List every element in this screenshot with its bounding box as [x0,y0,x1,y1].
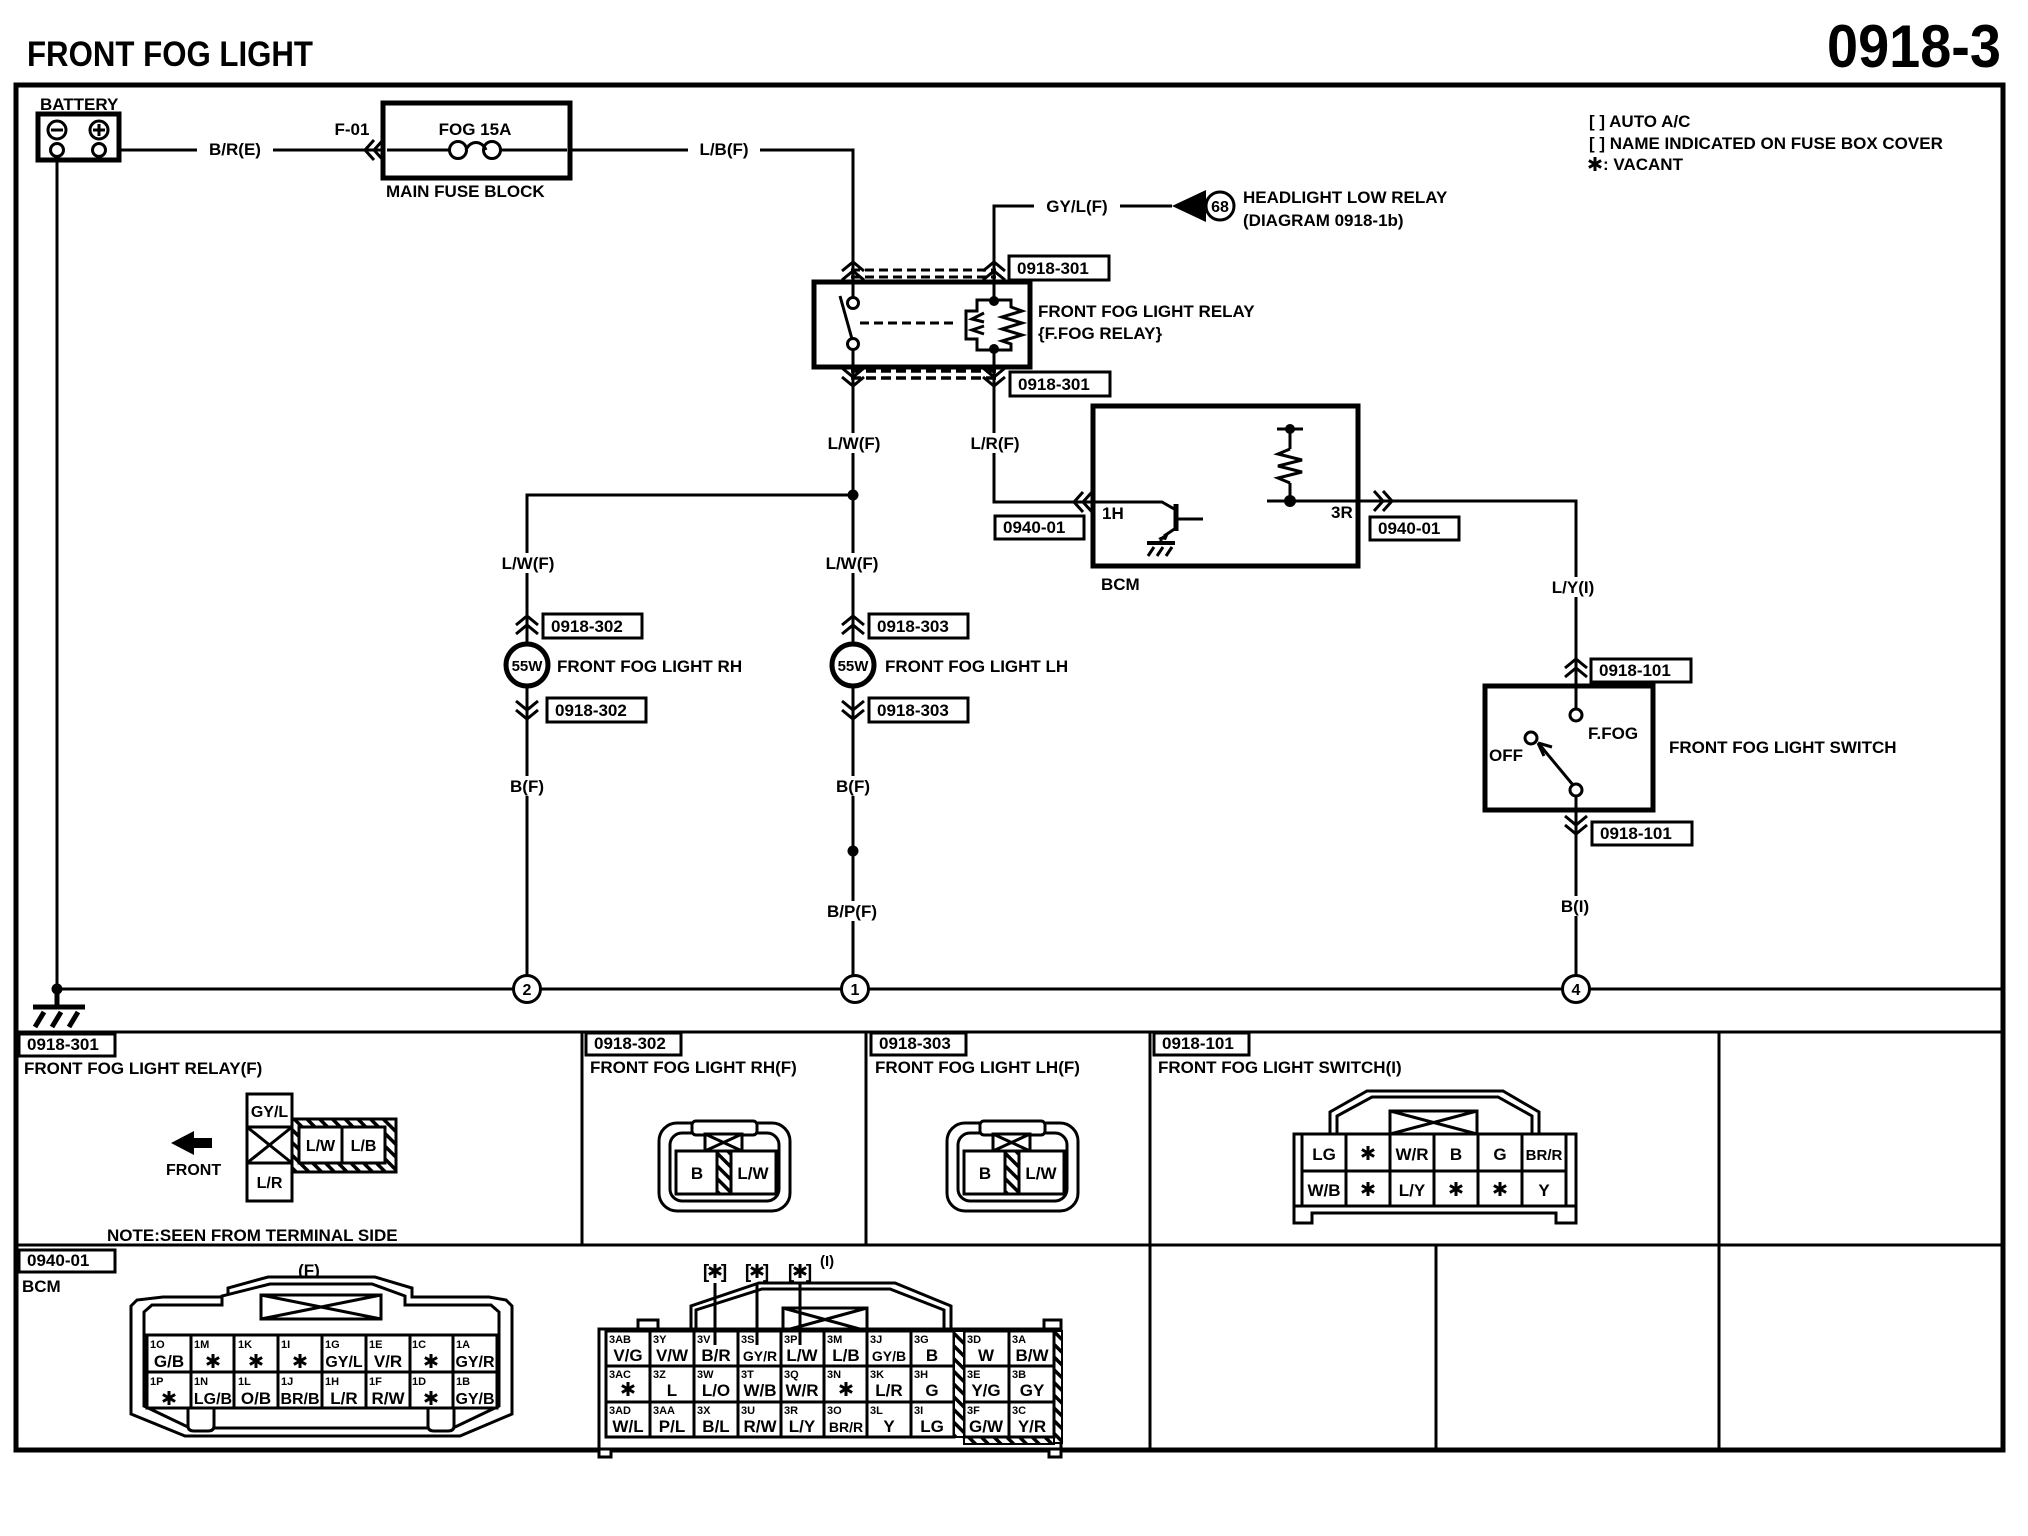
svg-text:3W: 3W [697,1369,714,1381]
svg-text:0918-303: 0918-303 [877,701,949,720]
BCM connector (F) housing [131,1277,512,1436]
BCM connector (I) housing [599,1283,1062,1457]
table header 0918-302 [586,1033,681,1055]
fuse FOG 15A [450,142,501,159]
FRONT direction arrow [171,1131,212,1155]
svg-text:: VACANT: : VACANT [1603,155,1684,174]
svg-text:3N: 3N [827,1369,841,1381]
svg-text:B: B [691,1164,703,1183]
svg-text:4: 4 [1572,982,1581,999]
svg-text:R/W: R/W [743,1417,777,1436]
svg-text:L/O: L/O [702,1381,730,1400]
svg-text:Y: Y [1538,1181,1550,1200]
svg-text:1J: 1J [281,1376,293,1388]
connector 0918-301 dashed pass-through above relay [851,270,996,277]
wire label L/W(F) RH feed [489,553,567,573]
svg-text:HEADLIGHT LOW RELAY: HEADLIGHT LOW RELAY [1243,188,1448,207]
svg-text:3R: 3R [784,1405,798,1417]
resistor pull-up in BCM [1277,424,1303,507]
BCM connector (I) pin 3Q W/R [784,1369,819,1400]
svg-text:FRONT FOG LIGHT SWITCH(I): FRONT FOG LIGHT SWITCH(I) [1158,1058,1402,1077]
switch contacts [1525,686,1582,810]
svg-text:BCM: BCM [1101,575,1140,594]
svg-text:1A: 1A [456,1339,470,1351]
ground bus wire [57,988,2003,991]
svg-text:FRONT FOG LIGHT LH: FRONT FOG LIGHT LH [885,657,1068,676]
svg-text:3Y: 3Y [653,1334,667,1346]
BCM connector (I) vacant bracket labels [703,1262,727,1283]
BCM connector (F) pin 1N LG/B [194,1376,232,1408]
BCM connector (I) pin 3M L/B [827,1334,860,1365]
svg-text:3R: 3R [1331,503,1353,522]
svg-text:BR/B: BR/B [280,1391,319,1408]
svg-text:FRONT FOG LIGHT SWITCH: FRONT FOG LIGHT SWITCH [1669,738,1897,757]
svg-text:BATTERY: BATTERY [40,95,119,114]
svg-text:3B: 3B [1012,1369,1026,1381]
svg-text:GY/R: GY/R [455,1354,495,1371]
connector chevron out of BCM pin 3R [1374,491,1392,511]
svg-text:1L: 1L [238,1376,251,1388]
table header 0918-101 [1154,1033,1249,1055]
svg-text:MAIN FUSE BLOCK: MAIN FUSE BLOCK [386,182,545,201]
ground symbol chassis earth [33,989,85,1027]
svg-text:L/W: L/W [306,1138,336,1155]
svg-text:0918-3: 0918-3 [1827,13,2001,80]
svg-text:L/Y: L/Y [789,1417,816,1436]
svg-text:1H: 1H [1102,504,1124,523]
svg-text:FRONT FOG LIGHT: FRONT FOG LIGHT [27,35,313,74]
svg-text:68: 68 [1211,199,1229,216]
svg-text:1C: 1C [412,1339,426,1351]
svg-text:1D: 1D [412,1376,426,1388]
wire label B(F) LH [828,776,878,796]
svg-text:W/B: W/B [743,1381,776,1400]
svg-text:FRONT FOG LIGHT LH(F): FRONT FOG LIGHT LH(F) [875,1058,1080,1077]
svg-text:3T: 3T [741,1369,754,1381]
BCM connector (F) pin 1I * [281,1339,306,1368]
wire label B/R(E) [197,139,273,159]
switch connector pin 10 * [1450,1182,1462,1196]
svg-text:L/B: L/B [832,1346,859,1365]
svg-text:1G: 1G [325,1339,340,1351]
connector table grid lines [16,1032,2003,1450]
svg-text:3M: 3M [827,1334,842,1346]
wire GY/L(F) relay coil to headlight low relay arrow [994,206,1172,297]
BCM connector (I) pin 3Z L [653,1369,677,1400]
svg-text:0918-303: 0918-303 [877,617,949,636]
svg-text:1F: 1F [369,1376,382,1388]
svg-text:1K: 1K [238,1339,252,1351]
wire battery negative to ground bus [56,158,59,989]
BCM connector (I) pin 3AD W/L [609,1405,644,1436]
BCM connector (I) pin 3L Y [870,1405,895,1436]
svg-text:B(F): B(F) [510,777,544,796]
svg-text:1E: 1E [369,1339,382,1351]
lamp front fog light LH 55W [832,644,874,686]
svg-text:3AC: 3AC [609,1369,631,1381]
node ground point 2 [514,976,541,1003]
svg-text:3U: 3U [741,1405,755,1417]
BCM connector (F) pin 1K * [238,1339,262,1368]
svg-text:LG/B: LG/B [194,1391,232,1408]
svg-text:G/W: G/W [969,1417,1004,1436]
svg-text:3Z: 3Z [653,1369,666,1381]
table header 0918-303 [871,1033,966,1055]
BCM connector (I) pin 3AA P/L [653,1405,685,1436]
BCM connector (F) pin 1B GY/B [455,1376,494,1408]
connector label 0918-303 bottom [869,698,968,722]
legend note vacant [1589,155,1684,174]
BCM connector (I) pin 3I LG [914,1405,944,1436]
svg-text:(DIAGRAM 0918-1b): (DIAGRAM 0918-1b) [1243,211,1404,230]
BCM connector (I) pin 3H G [914,1369,939,1400]
svg-text:L/W: L/W [1025,1164,1057,1183]
svg-text:W/R: W/R [785,1381,818,1400]
table header 0918-301 [19,1034,115,1056]
relay connector terminal view [247,1094,396,1201]
svg-text:Y/R: Y/R [1018,1417,1046,1436]
wire B(F)/B/P(F) fog light LH to ground point 1 [852,686,855,976]
svg-text:GY/B: GY/B [872,1348,906,1364]
BCM connector (I) pin 3AB V/G [609,1334,643,1365]
svg-text:L/W(F): L/W(F) [828,434,881,453]
wire label B(I) [1552,896,1598,916]
svg-text:3D: 3D [967,1334,981,1346]
BCM connector (I) pin 3K L/R [870,1369,903,1400]
svg-text:FRONT FOG LIGHT RELAY: FRONT FOG LIGHT RELAY [1038,302,1255,321]
svg-text:L/R: L/R [330,1389,357,1408]
svg-text:W: W [978,1346,995,1365]
svg-text:V/R: V/R [374,1352,402,1371]
svg-text:GY/B: GY/B [455,1391,494,1408]
svg-text:2: 2 [523,982,532,999]
relay coil [966,282,1022,367]
svg-text:FRONT FOG LIGHT RH(F): FRONT FOG LIGHT RH(F) [590,1058,797,1077]
svg-text:B(I): B(I) [1561,897,1589,916]
BCM connector (F) pin 1E V/R [369,1339,402,1371]
svg-text:3H: 3H [914,1369,928,1381]
svg-text:[ ] NAME INDICATED ON FUSE BOX: [ ] NAME INDICATED ON FUSE BOX COVER [1589,134,1943,153]
svg-text:0918-302: 0918-302 [594,1034,666,1053]
svg-text:0918-302: 0918-302 [551,617,623,636]
BCM connector (I) pin 3A B/W [1012,1334,1049,1365]
svg-text:0918-301: 0918-301 [1017,259,1089,278]
BCM connector (I) pin 3J GY/B [870,1334,906,1364]
svg-text:1M: 1M [194,1339,209,1351]
svg-text:O/B: O/B [241,1389,271,1408]
svg-text:L/W(F): L/W(F) [502,554,555,573]
svg-text:0918-301: 0918-301 [1018,375,1090,394]
svg-text:FRONT: FRONT [166,1162,221,1179]
svg-text:3S: 3S [741,1334,754,1346]
svg-text:3L: 3L [870,1405,883,1417]
svg-text:55W: 55W [512,658,544,675]
svg-text:1H: 1H [325,1376,339,1388]
svg-text:B: B [926,1346,938,1365]
BCM connector (I) pin 3T W/B [741,1369,777,1400]
BCM connector (I) pin 3P L/W [784,1334,819,1365]
wire fuse element lead [387,149,452,152]
svg-text:GY/R: GY/R [743,1348,777,1364]
svg-text:[ ] AUTO A/C: [ ] AUTO A/C [1589,112,1690,131]
svg-text:0918-101: 0918-101 [1162,1034,1234,1053]
wire 3R inside BCM [1267,500,1358,503]
wire label L/B(F) [688,139,760,159]
BCM connector (I) pin 3B GY [1012,1369,1045,1400]
wire label GY/L(F) [1034,196,1120,216]
svg-text:3AB: 3AB [609,1334,631,1346]
BCM connector (I) pin 3X B/L [697,1405,730,1436]
svg-text:L/R: L/R [257,1175,283,1192]
BCM connector (I) pin 3AC * [609,1369,634,1396]
svg-text:1P: 1P [150,1376,163,1388]
svg-text:0940-01: 0940-01 [27,1251,89,1270]
svg-text:L/B: L/B [351,1138,377,1155]
BCM connector (F) pin 1P * [150,1376,175,1405]
svg-text:W/R: W/R [1395,1145,1428,1164]
svg-text:55W: 55W [838,658,870,675]
svg-text:(I): (I) [820,1253,834,1270]
BCM connector (F) pin 1H L/R [325,1376,358,1408]
wire label L/Y(I) [1541,577,1605,597]
svg-text:V/W: V/W [656,1346,689,1365]
svg-text:3G: 3G [914,1334,929,1346]
BCM connector (I) pin 3Y V/W [653,1334,689,1365]
svg-text:NOTE:SEEN FROM TERMINAL SIDE: NOTE:SEEN FROM TERMINAL SIDE [107,1226,398,1245]
BCM connector (I) pin 3U R/W [741,1405,777,1436]
switch connector pin 11 * [1494,1182,1506,1196]
svg-text:FRONT FOG LIGHT RELAY(F): FRONT FOG LIGHT RELAY(F) [24,1059,262,1078]
svg-text:OFF: OFF [1489,746,1523,765]
svg-text:GY/L: GY/L [251,1104,289,1121]
svg-text:B/W: B/W [1015,1346,1049,1365]
svg-text:B(F): B(F) [836,777,870,796]
svg-text:0940-01: 0940-01 [1378,519,1440,538]
svg-text:BCM: BCM [22,1277,61,1296]
svg-text:BR/R: BR/R [829,1419,863,1435]
wire label B/P(F) [815,901,889,921]
svg-text:L/W: L/W [786,1346,818,1365]
wire L/R(F) relay coil to BCM pin 1H [994,367,1093,502]
svg-text:FOG 15A: FOG 15A [439,120,512,139]
svg-text:3X: 3X [697,1405,711,1417]
svg-text:3V: 3V [697,1334,711,1346]
node ground bus junction at battery wire [52,984,63,995]
svg-text:BR/R: BR/R [1526,1147,1563,1164]
front fog light relay box [814,282,1030,367]
svg-text:3K: 3K [870,1369,884,1381]
svg-text:]: ] [806,1262,812,1283]
BCM box [1093,406,1358,566]
relay switch contact [840,282,859,367]
connector label 0918-303 top [869,614,968,638]
connector label 0918-302 bottom [547,698,646,722]
BCM connector (I) pin 3D W [967,1334,995,1365]
connector label 0918-301 bottom [1010,372,1110,396]
connector label 0918-301 top [1009,256,1109,280]
svg-text:F.FOG: F.FOG [1588,724,1638,743]
svg-text:B/L: B/L [702,1417,729,1436]
svg-text:3P: 3P [784,1334,797,1346]
svg-text:GY/L: GY/L [325,1354,363,1371]
node branch junction L/W [848,490,859,501]
svg-text:]: ] [763,1262,769,1283]
wire L/Y(I) BCM pin 3R to fog light switch [1358,501,1576,687]
wire label L/W(F) LH feed [813,553,891,573]
svg-text:0918-303: 0918-303 [879,1034,951,1053]
BCM connector (F) pin 1L O/B [238,1376,271,1408]
connector chevron into BCM pin 1H [1074,492,1092,512]
svg-text:LG: LG [920,1417,944,1436]
lamp front fog light RH 55W [506,644,548,686]
svg-text:3Q: 3Q [784,1369,799,1381]
svg-text:3I: 3I [914,1405,923,1417]
svg-text:L/R: L/R [875,1381,902,1400]
svg-text:V/G: V/G [613,1346,642,1365]
svg-text:B/P(F): B/P(F) [827,902,877,921]
BCM connector (F) pin 1F R/W [369,1376,405,1408]
svg-text:3E: 3E [967,1369,980,1381]
front fog light switch box [1485,686,1653,810]
wire B/R(E) battery to fuse [119,149,383,152]
svg-text:L/W(F): L/W(F) [826,554,879,573]
svg-text:L/B(F): L/B(F) [699,140,748,159]
svg-text:G: G [925,1381,938,1400]
svg-text:F-01: F-01 [335,120,370,139]
BCM connector (F) pin 1G GY/L [325,1339,363,1371]
BCM connector (I) pin 3E Y/G [967,1369,1001,1400]
svg-text:L/R(F): L/R(F) [970,434,1019,453]
node splice on B/P(F) wire [848,846,859,857]
connector label 0918-302 top [543,614,642,638]
BCM connector (I) pin 3F G/W [967,1405,1004,1436]
BCM connector (I) pin 3S GY/R [741,1334,777,1364]
reference arrow to headlight low relay [1172,190,1206,222]
svg-text:3J: 3J [870,1334,882,1346]
svg-text:B: B [979,1164,991,1183]
BCM connector (I) pin 3W L/O [697,1369,730,1400]
svg-text:[: [ [703,1262,710,1283]
switch connector pin 8 * [1362,1182,1374,1196]
svg-text:W/B: W/B [1307,1181,1340,1200]
switch connector pin 2 * [1362,1146,1374,1160]
svg-text:3AD: 3AD [609,1405,631,1417]
svg-text:1I: 1I [281,1339,290,1351]
svg-text:G: G [1493,1145,1506,1164]
svg-text:GY/L(F): GY/L(F) [1046,197,1107,216]
BCM connector (F) pin 1M * [194,1339,219,1368]
svg-text:Y: Y [883,1417,895,1436]
fog light LH connector view [947,1121,1078,1211]
fog light RH connector view [659,1121,790,1211]
connector chevron into main fuse block [365,140,383,160]
svg-text:[: [ [745,1262,752,1283]
table header 0940-01 [19,1250,115,1272]
BCM connector (I) pin 3V B/R [697,1334,731,1365]
BCM connector (F) pin 1A GY/R [455,1339,495,1371]
connector label 0918-101 bottom [1592,822,1692,845]
wire L/W(F) relay to branch junction and fog light LH [852,367,855,645]
svg-text:0940-01: 0940-01 [1003,518,1065,537]
svg-text:LG: LG [1312,1145,1336,1164]
svg-text:B: B [1450,1145,1462,1164]
svg-text:0918-101: 0918-101 [1600,824,1672,843]
svg-text:3AA: 3AA [653,1405,675,1417]
connector label 0940-01 right [1370,517,1459,540]
svg-text:W/L: W/L [612,1417,643,1436]
svg-text:GY: GY [1020,1381,1045,1400]
battery [38,114,119,160]
BCM connector (F) pin 1J BR/B [280,1376,319,1408]
wire label B(F) RH [502,776,552,796]
svg-text:FRONT FOG LIGHT RH: FRONT FOG LIGHT RH [557,657,742,676]
svg-text:3A: 3A [1012,1334,1026,1346]
svg-text:B/R(E): B/R(E) [209,140,261,159]
svg-text:L/Y(I): L/Y(I) [1552,578,1595,597]
svg-text:3C: 3C [1012,1405,1026,1417]
connector label 0918-101 top [1591,659,1691,682]
ground symbol inside BCM [1147,543,1175,556]
svg-text:G/B: G/B [154,1352,184,1371]
svg-text:L/W: L/W [737,1164,769,1183]
wire B(I) switch to ground point 4 [1575,810,1578,976]
wire label L/W(F) relay output [815,433,893,453]
BCM connector (I) pin 3R L/Y [784,1405,816,1436]
wire L/W(F) branch to fog light RH [527,495,853,645]
BCM connector (I) pin 3O BR/R [827,1405,863,1435]
svg-text:1B: 1B [456,1376,470,1388]
svg-text:1O: 1O [150,1339,165,1351]
BCM connector (I) pin 3G B [914,1334,938,1365]
svg-text:3O: 3O [827,1405,842,1417]
fog light switch connector view [1294,1091,1576,1223]
node ground point 1 [842,976,869,1003]
svg-text:0918-302: 0918-302 [555,701,627,720]
svg-text:0918-101: 0918-101 [1599,661,1671,680]
BCM connector (I) pin grid [606,1331,1054,1437]
wire L/B(F) fuse to relay [570,150,853,298]
BCM connector (F) pin 1C * [412,1339,437,1368]
svg-text:3F: 3F [967,1405,980,1417]
BCM connector (I) pin 3N * [827,1369,852,1396]
connector label 0940-01 left [995,516,1084,539]
connector 0918-301 dashed pass-through below relay [851,371,996,378]
svg-text:1: 1 [851,982,860,999]
wire label L/R(F) [957,433,1033,453]
svg-text:B/R: B/R [701,1346,730,1365]
svg-text:L: L [667,1381,677,1400]
svg-text:Y/G: Y/G [971,1381,1000,1400]
relay actuation dashed link [860,322,958,325]
svg-text:[: [ [788,1262,795,1283]
main fuse block box [383,103,570,178]
wire B(F) fog light RH to ground point 2 [526,686,529,976]
transistor Q1 in BCM [1093,502,1203,543]
svg-text:R/W: R/W [371,1389,405,1408]
svg-text:{F.FOG RELAY}: {F.FOG RELAY} [1038,324,1162,343]
svg-text:1N: 1N [194,1376,208,1388]
svg-text:P/L: P/L [659,1417,685,1436]
BCM connector (I) pin 3C Y/R [1012,1405,1046,1436]
node ground point 4 [1563,976,1590,1003]
svg-text:L/Y: L/Y [1399,1181,1426,1200]
BCM connector (F) pin 1O G/B [150,1339,184,1371]
BCM connector (F) pin 1D * [412,1376,437,1405]
svg-text:]: ] [721,1262,727,1283]
svg-text:0918-301: 0918-301 [27,1035,99,1054]
reference circle 68 [1206,192,1234,220]
